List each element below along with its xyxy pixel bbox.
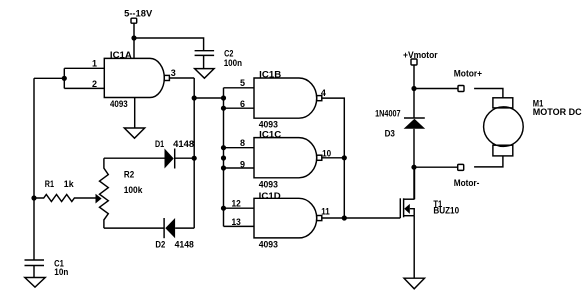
svg-text:1N4007: 1N4007: [375, 109, 401, 119]
motor M1 MOTOR DC: [484, 98, 583, 156]
pin 2 stub IC1A: [64, 87, 104, 89]
ground under C1: [25, 278, 45, 288]
svg-text:D2: D2: [155, 240, 165, 250]
diode D1 4148: [155, 139, 194, 168]
wire D3 to drain: [413, 129, 415, 199]
svg-text:D1: D1: [155, 139, 164, 149]
svg-text:4: 4: [321, 88, 326, 98]
wire source to ground: [413, 216, 415, 279]
power terminal 5--18V: [124, 9, 152, 24]
junction pin 12: [221, 206, 226, 211]
svg-text:8: 8: [240, 138, 245, 148]
junction output bus pin11: [342, 215, 347, 220]
gate IC1B (NAND 4093): [254, 69, 322, 129]
svg-text:9: 9: [240, 159, 245, 169]
svg-text:BUZ10: BUZ10: [433, 206, 459, 216]
wire feed to input bus: [194, 97, 223, 99]
svg-text:D3: D3: [385, 129, 395, 139]
svg-text:1k: 1k: [64, 179, 75, 189]
wire power terminal down: [133, 23, 135, 38]
svg-text:4148: 4148: [175, 240, 194, 250]
svg-text:Motor+: Motor+: [454, 69, 482, 79]
pin 4 output wire: [322, 98, 345, 218]
junction R1 bus: [31, 195, 36, 200]
junction output bus pin10: [342, 155, 347, 160]
svg-text:IC1A: IC1A: [110, 50, 133, 60]
svg-text:4093: 4093: [110, 99, 128, 109]
wire power to IC1A pin 14: [133, 38, 135, 58]
svg-text:IC1D: IC1D: [259, 191, 282, 201]
wire to Motor- terminal: [414, 166, 458, 168]
pin 8 stub: [224, 147, 255, 149]
junction motor plus: [411, 86, 416, 91]
svg-text:R1: R1: [45, 179, 54, 189]
svg-text:IC1B: IC1B: [259, 69, 282, 79]
junction power node: [131, 35, 136, 40]
svg-text:1: 1: [92, 59, 97, 69]
junction pin 6: [221, 106, 226, 111]
wire left bus vertical: [33, 78, 35, 260]
pin 11 output wire to mosfet gate: [322, 217, 401, 219]
wire Motor+ to motor: [474, 89, 503, 98]
pin 6 stub: [224, 107, 255, 109]
wire R2 top to D1: [104, 157, 165, 159]
pin 10 output wire: [322, 157, 345, 159]
potentiometer R2 100k wiper arrow: [96, 194, 102, 204]
svg-text:4093: 4093: [259, 239, 278, 249]
junction bus feed: [221, 95, 226, 100]
svg-text:100k: 100k: [124, 185, 144, 195]
wire to Motor+ terminal: [414, 88, 458, 90]
terminal Motor-: [454, 164, 480, 188]
svg-text:11: 11: [321, 207, 330, 217]
terminal +Vmotor: [403, 50, 438, 65]
pin 3 output wire: [169, 77, 194, 79]
svg-text:100n: 100n: [224, 58, 242, 68]
wire inputs to left bus: [34, 77, 64, 79]
junction pin 8: [221, 145, 226, 150]
diode D2 4148: [155, 218, 194, 250]
svg-text:4093: 4093: [259, 120, 278, 130]
svg-text:MOTOR DC: MOTOR DC: [533, 107, 582, 117]
svg-text:3: 3: [171, 68, 176, 78]
junction inputs: [62, 76, 67, 81]
junction bus mid: [221, 155, 226, 160]
resistor R1 1k: [34, 179, 96, 202]
junction pin 9: [221, 165, 226, 170]
svg-text:12: 12: [232, 199, 241, 209]
ground under IC1A: [124, 128, 144, 138]
wire input connector vertical: [63, 68, 65, 88]
svg-text:IC1C: IC1C: [259, 130, 282, 140]
pin 12 stub: [224, 207, 255, 209]
wire +Vmotor down: [413, 65, 415, 118]
svg-text:Motor-: Motor-: [454, 178, 480, 188]
wire drain vertical: [414, 167, 416, 199]
wire R2 bottom to D2: [104, 227, 164, 229]
pin 1 stub IC1A: [64, 67, 104, 69]
svg-text:+Vmotor: +Vmotor: [403, 50, 438, 60]
wire motor to Motor-: [474, 156, 503, 167]
gate IC1D (NAND 4093): [254, 191, 322, 250]
ground under C2: [195, 69, 215, 79]
junction motor minus: [411, 165, 416, 170]
pin 5 stub: [224, 87, 255, 89]
svg-text:10: 10: [322, 148, 331, 158]
svg-text:5--18V: 5--18V: [124, 9, 152, 19]
svg-text:13: 13: [232, 217, 241, 227]
transistor T1 BUZ10 mosfet: [400, 198, 459, 218]
svg-text:R2: R2: [124, 170, 134, 180]
diode D3 1N4007: [375, 109, 425, 139]
wire feedback vertical: [193, 78, 195, 228]
junction feed: [192, 95, 197, 100]
gate IC1C (NAND 4093): [254, 130, 322, 190]
svg-text:4148: 4148: [173, 139, 194, 149]
terminal Motor+: [454, 69, 482, 92]
op-amp gate IC1A (NAND 4093): [104, 50, 169, 109]
wire power to C2: [134, 38, 204, 51]
pin 13 stub: [224, 225, 255, 227]
ground mosfet: [404, 278, 425, 289]
svg-text:2: 2: [92, 79, 97, 89]
svg-text:5: 5: [240, 78, 245, 88]
wire input bus vertical: [223, 88, 225, 227]
capacitor C1 10n: [25, 258, 69, 277]
junction D1 feedback: [192, 156, 197, 161]
svg-text:6: 6: [240, 99, 245, 109]
potentiometer R2 100k: [100, 158, 144, 228]
svg-text:4093: 4093: [259, 180, 278, 190]
svg-text:10n: 10n: [54, 267, 68, 277]
capacitor C2: [195, 49, 242, 69]
pin 9 stub: [224, 167, 255, 169]
wire IC1A ground stub: [134, 98, 136, 129]
